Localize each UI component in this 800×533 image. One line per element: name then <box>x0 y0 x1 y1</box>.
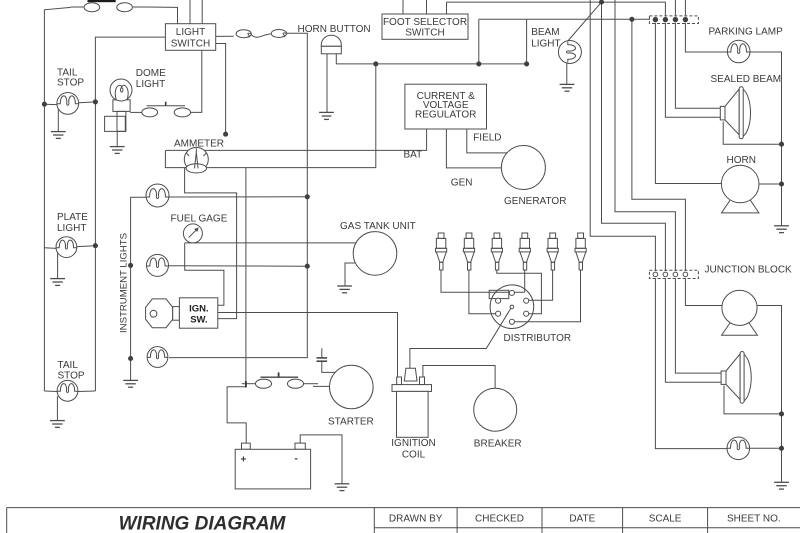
wire: bus y64 drop x375 to ammeter bottom rail <box>165 64 375 168</box>
wire: regulator GEN terminal to generator <box>446 129 501 168</box>
wire: fuel gage rail drop to ignition switch upper terminal <box>185 243 224 305</box>
node: horn bus / x375 <box>373 61 378 66</box>
wire: junction block pin 4 down to horn 2 <box>685 278 722 305</box>
spark plug 1 <box>436 233 447 270</box>
ignition switch key <box>146 299 180 328</box>
distributor <box>489 285 534 329</box>
ground (tail stop 2) <box>50 421 65 428</box>
wire: starter solenoid lead to starter <box>321 348 323 358</box>
wire: horn button right leg to bus y64 <box>336 54 526 64</box>
svg-text:SCALE: SCALE <box>649 513 682 524</box>
wire: light switch left to right bus x95 <box>95 37 165 391</box>
wire: solenoid lower lead to starter motor <box>322 361 336 372</box>
label: PLATE LIGHT <box>57 212 88 234</box>
svg-text:SWITCH: SWITCH <box>171 39 210 50</box>
ignition coil T1 <box>392 368 432 437</box>
wire: light switch lower right stub to dot <box>216 44 226 135</box>
svg-text:INSTRUMENT LIGHTS: INSTRUMENT LIGHTS <box>119 233 130 333</box>
wire: foot selector riser 1 <box>402 0 404 14</box>
parking lamp <box>727 40 750 63</box>
wire: terminal block pin 4 down to parking lamp <box>685 23 727 52</box>
wire: ammeter BAT rail to regulator BAT <box>165 129 426 150</box>
svg-text:LIGHT: LIGHT <box>136 79 165 90</box>
wire: terminal block pin 2 down to sealed beam lower <box>665 23 720 117</box>
node: horn bus / x480 riser <box>476 61 481 66</box>
wire: x615 feeder to junction block pin 3 <box>615 0 675 271</box>
wire: ammeter jog down to ignition switch lower terminal <box>185 168 237 319</box>
wire: battery positive to pedal switch tee <box>227 387 246 443</box>
svg-text:DOME: DOME <box>136 68 166 79</box>
wire: distributor rotor to ignition coil tower <box>410 308 511 369</box>
svg-text:PLATE: PLATE <box>57 212 88 223</box>
svg-text:REGULATOR: REGULATOR <box>415 110 476 121</box>
breaker <box>474 388 517 431</box>
node: instrument bus / light 3 <box>128 356 133 361</box>
svg-text:SW.: SW. <box>190 314 207 325</box>
wire: junction block pin 3 down to sealed beam 2 upper <box>675 278 721 373</box>
wire: terminal block pin 3 down to sealed beam upper <box>675 23 720 109</box>
wire: x601 feeder from y2 dot to junction block pin 2 <box>602 2 666 271</box>
wire: junction block pin 2 down to sealed beam 2 lower <box>665 278 721 382</box>
svg-text:STOP: STOP <box>57 77 84 88</box>
svg-text:SHEET NO.: SHEET NO. <box>727 513 781 524</box>
starter motor <box>330 365 374 409</box>
foot selector switch S3 <box>382 14 468 39</box>
ignition switch S4 <box>179 298 217 328</box>
wire: spark plug 1 lead to distributor condenser <box>441 270 525 292</box>
svg-text:COIL: COIL <box>402 450 426 461</box>
ground (beam light) <box>560 84 575 91</box>
svg-text:HORN: HORN <box>727 155 756 166</box>
wire: beam light diagonal to y2 dot <box>567 2 601 41</box>
svg-text:SWITCH: SWITCH <box>405 28 444 39</box>
node: x782 rail / rear lamp <box>779 446 784 451</box>
beam light lamp <box>558 41 581 64</box>
wire: bus y64 riser x527 to y19 line <box>526 19 528 64</box>
wire: y19 line to top terminal block pin 1 <box>479 18 650 20</box>
junction block TB2 (dashed, 4 pins) <box>649 270 698 278</box>
label: TAIL STOP (lower) <box>58 360 85 382</box>
node: light switch stub terminal <box>223 132 228 137</box>
wire: spark plug 4 drop <box>524 270 526 292</box>
ground (horn rail) <box>774 226 789 233</box>
wire: regulator FIELD terminal to generator <box>467 129 507 153</box>
starter solenoid points <box>317 358 328 361</box>
svg-text:PARKING LAMP: PARKING LAMP <box>709 27 784 38</box>
wire: top-left connector to left bus <box>44 7 70 104</box>
wire: beam light lead to ground <box>566 63 568 84</box>
svg-text:LIGHT: LIGHT <box>57 223 86 234</box>
horn H2 <box>722 290 758 335</box>
wire: light switch riser 2 <box>189 0 191 24</box>
node: instrument light 1 / x307 <box>305 194 310 199</box>
svg-text:TAIL: TAIL <box>58 360 79 371</box>
horn button S2 <box>321 35 341 54</box>
instrument light 1 <box>146 184 169 207</box>
svg-text:SEALED BEAM: SEALED BEAM <box>711 74 782 85</box>
node: instrument light 2 / x307 <box>305 264 310 269</box>
connector pair B (horn lead) <box>236 30 286 38</box>
wire: foot selector riser 2 <box>426 0 428 14</box>
wire: y2 line to terminal block pin 2 <box>447 2 666 16</box>
wire: bus y64 riser x480 to y19 line <box>478 19 480 64</box>
svg-text:AMMETER: AMMETER <box>174 138 224 149</box>
wire: pedal switch to starter motor <box>313 385 330 387</box>
wire: foot selector top right riser to y2 line <box>446 2 448 14</box>
svg-text:DISTRIBUTOR: DISTRIBUTOR <box>504 333 572 344</box>
wire: spark plug 2 lead to distributor lower-left pin <box>469 270 496 314</box>
battery BT1 <box>235 443 310 489</box>
wire: spark plug 6 lead to distributor bottom pin <box>514 270 580 322</box>
svg-text:LIGHT: LIGHT <box>531 39 560 50</box>
spark plug 2 <box>463 233 474 270</box>
svg-text:DATE: DATE <box>569 513 595 524</box>
ground (tail stop 1) <box>51 132 66 139</box>
spark plug 5 <box>547 233 558 270</box>
wire: junction block pin 1 down to rear lamp <box>655 278 727 448</box>
node: x782 rail / sealed beam 1 <box>779 142 784 147</box>
wire: left bus x44 tail stop 1 to tail stop 2 <box>43 104 45 391</box>
svg-text:DRAWN BY: DRAWN BY <box>389 513 443 524</box>
node: horn bus / x527 riser <box>524 61 529 66</box>
wire: horn button left leg to ground <box>326 54 328 113</box>
wire: ammeter drop to starter pedal switch <box>245 168 247 388</box>
wire: x632 drop to junction block pin 4 <box>632 19 686 271</box>
tail stop lamp 1 <box>44 93 95 132</box>
wire: horn 2 right to lower x782 rail <box>757 306 782 482</box>
light switch SW1 <box>165 24 215 51</box>
horn H1 <box>721 165 759 213</box>
ground (rear lamp rail) <box>774 482 789 489</box>
svg-text:CHECKED: CHECKED <box>475 513 524 524</box>
ground (dome light) <box>110 147 125 154</box>
ground (plate light) <box>50 279 65 286</box>
node: x782 rail / horn <box>779 181 784 186</box>
wire: sealed beam 1 bottom to x782 rail <box>723 122 781 145</box>
svg-text:GENERATOR: GENERATOR <box>504 196 566 207</box>
rear lamp <box>727 437 750 460</box>
wire: pedal switch left lead <box>242 383 256 385</box>
svg-text:LIGHT: LIGHT <box>176 27 205 38</box>
spark plug 6 <box>575 233 586 270</box>
spark plug 4 <box>519 233 530 270</box>
node: y19 line / x632 <box>629 17 634 22</box>
svg-text:-: - <box>295 454 298 465</box>
spark plug 3 <box>491 233 502 270</box>
wire: instrument light 1 right lead to x307 dot <box>169 196 307 198</box>
wire: light switch to connector B <box>216 35 234 37</box>
node: plate light right <box>93 243 98 248</box>
svg-text:IGNITION: IGNITION <box>391 438 435 449</box>
label: BEAM LIGHT <box>531 27 560 50</box>
ammeter M1 <box>184 147 208 173</box>
svg-text:WIRING DIAGRAM: WIRING DIAGRAM <box>119 514 287 533</box>
svg-text:IGN.: IGN. <box>189 303 209 314</box>
fuel gage M2 <box>183 224 202 243</box>
svg-text:FUEL GAGE: FUEL GAGE <box>171 214 228 225</box>
svg-text:BEAM: BEAM <box>531 27 559 38</box>
node: x782 rail / sealed beam 2 <box>779 411 784 416</box>
wire: horn right lead to x782 rail <box>759 183 782 185</box>
instrument light 2 <box>147 254 169 276</box>
label: DOME LIGHT <box>136 68 166 90</box>
ground (gas tank unit) <box>337 286 352 293</box>
wire: ignition coil secondary to breaker <box>423 366 495 389</box>
node: instrument bus / light 2 <box>128 263 133 268</box>
tail stop lamp 2 <box>44 380 95 420</box>
dome light lamp <box>105 79 132 146</box>
svg-text:JUNCTION BLOCK: JUNCTION BLOCK <box>705 265 793 276</box>
plate light lamp <box>44 237 95 279</box>
wire: terminal block pin 4 riser <box>684 0 686 17</box>
wire: sealed beam 2 bottom to x782 rail <box>724 386 782 414</box>
sealed beam 2 <box>721 352 751 404</box>
wire: top-left connector right to light switch top <box>146 7 178 24</box>
wire: parking lamp right to x782 rail <box>750 52 782 225</box>
wire: light switch bottom to dome switch <box>191 50 202 112</box>
ground (battery) <box>335 484 350 491</box>
generator G1 <box>501 146 545 190</box>
ground (horn button) <box>319 112 334 119</box>
ground (instrument bus) <box>123 380 138 387</box>
label: TAIL STOP (upper) <box>57 67 84 88</box>
wire: spark plug 3 lead to distributor lower-right pin <box>497 270 542 314</box>
svg-text:GAS TANK UNIT: GAS TANK UNIT <box>340 221 416 232</box>
wire: terminal block pin 3 riser <box>674 0 676 17</box>
node: tail stop 1 right <box>93 99 98 104</box>
wire: spark plug 5 lead to distributor upper-right pin <box>529 270 553 300</box>
instrument light 3 <box>147 347 168 368</box>
sealed beam 1 <box>720 87 750 139</box>
wire: gas tank unit ground stub <box>345 263 356 286</box>
svg-text:FOOT SELECTOR: FOOT SELECTOR <box>383 17 467 28</box>
svg-text:BAT: BAT <box>404 150 423 161</box>
svg-text:BREAKER: BREAKER <box>474 438 522 449</box>
svg-text:+: + <box>241 455 247 466</box>
node: tail stop 1 left <box>42 102 47 107</box>
wire: fuel gage rail to gas tank unit <box>185 242 357 244</box>
svg-text:GEN: GEN <box>451 178 473 189</box>
wire: x590 feeder to junction block pin 1 <box>590 0 655 271</box>
svg-text:STOP: STOP <box>58 370 85 381</box>
svg-text:HORN BUTTON: HORN BUTTON <box>298 24 371 35</box>
connector pair A (top left) <box>71 0 146 12</box>
wire: pedal switch right lead <box>304 383 318 385</box>
svg-text:STARTER: STARTER <box>328 417 374 428</box>
node: y2 line / beam light / x601 <box>599 0 604 5</box>
wire: rear lamp right lead to x782 rail <box>750 447 782 449</box>
wire: ignition switch mid terminal to ignition coil primary <box>218 313 398 378</box>
wire: terminal block pin 1 down to horn <box>655 23 721 184</box>
svg-text:FIELD: FIELD <box>473 133 501 144</box>
wire: light switch riser 3 <box>201 0 203 24</box>
wire: battery negative to ground <box>300 435 342 484</box>
label: IGNITION COIL <box>391 438 435 461</box>
gas tank unit <box>353 232 397 276</box>
starter pedal switch <box>246 372 304 388</box>
wire: connector B to horn wire corner, down x307 <box>169 33 307 357</box>
wire: instrument light 2 right lead to x307 dot <box>169 265 308 267</box>
current &amp; voltage regulator VR1 <box>405 84 487 129</box>
dome light switch <box>130 102 190 117</box>
wire: instrument light 1 lead to panel bus <box>131 197 146 380</box>
terminal block TB1 (dashed, 4 pins) <box>649 16 698 24</box>
